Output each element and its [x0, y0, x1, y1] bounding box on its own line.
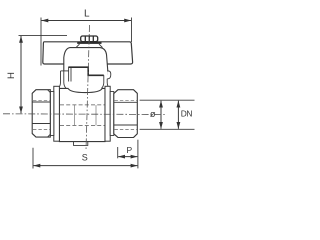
bore hidden line upper (body): [60, 104, 105, 106]
bonnet dome outline: [64, 48, 108, 76]
ball seat right: [95, 105, 97, 126]
dimension S line: [34, 165, 138, 167]
centerline horizontal: [3, 113, 166, 116]
dimension L right extension line: [131, 18, 133, 43]
stem nut flare: [76, 44, 103, 48]
dimension S left extension line: [32, 148, 34, 169]
dimension S right extension line: [137, 140, 139, 169]
bore bottom extension line: [140, 128, 195, 130]
ball seat left: [74, 105, 76, 126]
dimension H top extension line: [19, 34, 68, 36]
stem nut ribbed cap: [81, 36, 98, 42]
svg-text:H: H: [6, 72, 17, 79]
dimension L line: [42, 20, 132, 22]
left hex face line lower: [32, 123, 50, 125]
body tube: [59, 88, 105, 141]
gland ledge: [61, 70, 69, 72]
right flange: [105, 86, 110, 141]
dimension diameter line: [160, 101, 162, 129]
right hex cap: [114, 90, 138, 138]
handle bar: [43, 42, 133, 64]
stop tab right: [107, 71, 111, 79]
svg-text:DN: DN: [181, 109, 193, 119]
right hex face line upper: [114, 101, 137, 103]
gland step left vertical pair: [68, 67, 70, 81]
left joint ring: [50, 92, 54, 136]
right hex face line lower: [114, 124, 137, 126]
svg-text:S: S: [82, 153, 88, 163]
dimension P left extension line: [117, 147, 119, 158]
bore top extension line: [140, 99, 195, 101]
bore hidden line lower (body): [60, 125, 105, 127]
dimension P line: [118, 156, 137, 158]
bonnet dome fill: [64, 48, 108, 75]
stem nut base bar: [77, 42, 101, 44]
centerline vertical: [86, 25, 90, 150]
svg-text:P: P: [126, 145, 132, 155]
drain boss: [74, 142, 88, 146]
left hex face line upper: [32, 101, 50, 103]
right joint ring: [110, 92, 114, 136]
left hex cap: [32, 90, 50, 137]
right hex thread hidden lines: [115, 99, 138, 101]
dimension L left extension line: [40, 18, 42, 66]
left hex thread hidden lines: [33, 99, 50, 101]
right hex chamfer corners: [114, 90, 138, 138]
left flange: [54, 86, 60, 141]
svg-text:L: L: [84, 8, 90, 19]
neck right wall: [101, 75, 103, 88]
dimension H line: [20, 36, 22, 113]
dimension DN line: [177, 101, 179, 129]
left hex chamfer corners: [32, 90, 50, 137]
neck left wall: [58, 71, 61, 88]
stem nut rib dividers: [85, 36, 93, 41]
gland step thick horizontal: [68, 67, 104, 75]
